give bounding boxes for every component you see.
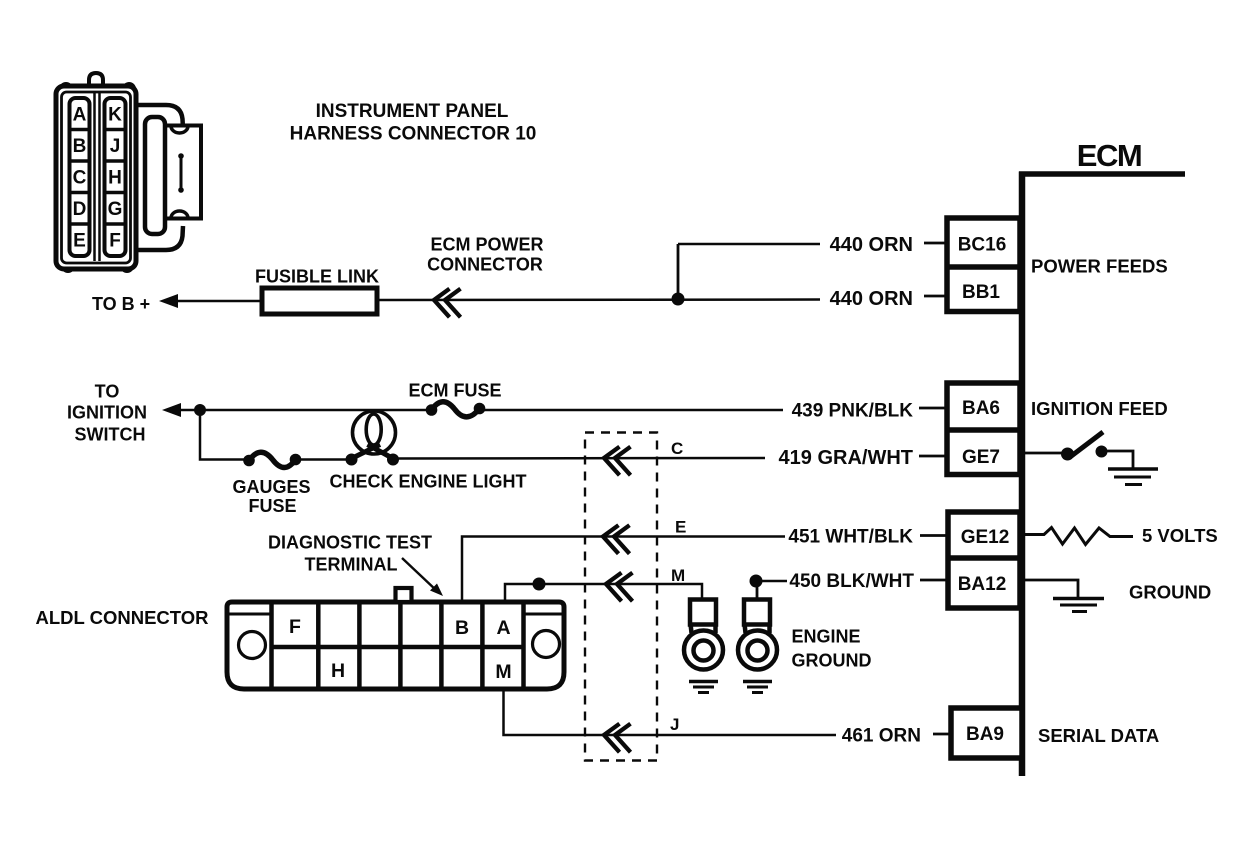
ALDL left divider [269, 602, 274, 689]
ground symbol at BA12 [1053, 599, 1104, 612]
wire stub to BA9 [933, 733, 951, 736]
svg-text:K: K [108, 105, 122, 126]
connector pin M chevrons [606, 573, 622, 602]
latch notch bottom [171, 211, 188, 218]
svg-text:BA12: BA12 [958, 574, 1007, 595]
svg-text:GAUGES: GAUGES [232, 477, 310, 497]
wire fusible link to connector [377, 298, 820, 301]
ground symbol ring 2 [743, 682, 772, 693]
fuse ECM FUSE [426, 404, 438, 416]
svg-text:BA9: BA9 [966, 724, 1004, 745]
wire stub to GE12 [920, 534, 948, 537]
svg-text:J: J [110, 136, 121, 157]
svg-text:M: M [671, 566, 685, 585]
svg-text:440 ORN: 440 ORN [830, 288, 913, 310]
connector J1 instrument panel harness connector 10 [56, 73, 201, 271]
switch ignition-to-ground [1020, 432, 1133, 468]
ALDL top tab [396, 588, 412, 602]
ALDL grid verticals [316, 603, 321, 688]
ALDL mounting hole right [533, 631, 560, 658]
svg-text:BB1: BB1 [962, 282, 1000, 303]
svg-text:GE12: GE12 [961, 527, 1010, 548]
fuse GAUGES FUSE [243, 455, 255, 467]
wire stub to BA12 [920, 579, 948, 582]
lamp check engine light [346, 454, 358, 466]
connector pin C chevrons [604, 447, 620, 476]
ground symbol ring 1 [689, 682, 718, 693]
arrow to B+ [159, 294, 178, 308]
wire gauges fuse to lamp [297, 458, 352, 461]
wire lamp to 419 GRA/WHT [393, 457, 765, 460]
connector ALDL body [227, 602, 564, 689]
svg-text:M: M [495, 661, 511, 683]
ring terminal 2 [738, 581, 777, 670]
mounting ear top-right [124, 84, 134, 94]
ring terminal 1 [684, 600, 723, 670]
svg-text:H: H [108, 168, 122, 189]
ground symbol at switch [1108, 469, 1158, 485]
connector ECM power connector chevrons [434, 289, 450, 318]
svg-text:450 BLK/WHT: 450 BLK/WHT [789, 571, 914, 592]
svg-text:419 GRA/WHT: 419 GRA/WHT [779, 447, 913, 469]
svg-text:C: C [73, 168, 87, 189]
svg-text:FUSIBLE LINK: FUSIBLE LINK [255, 267, 379, 287]
svg-text:BA6: BA6 [962, 398, 1000, 419]
terminal block BA9 [951, 708, 1022, 758]
junction dot ignition branch [194, 404, 206, 416]
connector bulkhead dashed outline [585, 433, 657, 761]
svg-text:SWITCH: SWITCH [75, 425, 146, 445]
svg-text:POWER FEEDS: POWER FEEDS [1031, 256, 1168, 277]
ALDL right ear line [523, 613, 562, 616]
terminal block BC16/BB1 [947, 218, 1020, 312]
wire stub to BC16 [924, 242, 948, 245]
svg-text:439 PNK/BLK: 439 PNK/BLK [792, 401, 914, 422]
ECM top edge [1019, 171, 1185, 177]
pin strip A-E [70, 98, 90, 256]
terminal block BA6/GE7 [947, 383, 1020, 475]
center rib [93, 93, 96, 261]
switch throw dot [1096, 446, 1108, 458]
svg-text:ALDL CONNECTOR: ALDL CONNECTOR [35, 607, 208, 628]
svg-text:GE7: GE7 [962, 447, 1000, 468]
svg-text:DIAGNOSTIC TEST: DIAGNOSTIC TEST [268, 533, 432, 553]
mounting ear bottom-left [63, 261, 73, 271]
ALDL mid row line [272, 645, 524, 650]
svg-text:H: H [331, 660, 345, 682]
wire BA12 to ground [1020, 580, 1078, 597]
svg-text:A: A [73, 105, 87, 126]
svg-text:TO B +: TO B + [92, 294, 150, 314]
svg-text:F: F [289, 616, 301, 638]
wire branch to 440 ORN upper [678, 243, 820, 246]
svg-text:HARNESS CONNECTOR 10: HARNESS CONNECTOR 10 [290, 124, 537, 145]
junction dot engine ground 2 [750, 575, 763, 588]
switch lever [1070, 432, 1103, 457]
svg-text:A: A [496, 617, 510, 639]
ALDL left ear line [229, 613, 271, 616]
svg-text:461 ORN: 461 ORN [842, 726, 921, 747]
svg-text:440 ORN: 440 ORN [830, 234, 913, 256]
arrow to ignition switch [162, 403, 181, 417]
svg-text:5 VOLTS: 5 VOLTS [1142, 525, 1218, 546]
wire stub to GE7 [919, 455, 948, 458]
latch tick [180, 156, 183, 190]
svg-text:TERMINAL: TERMINAL [305, 555, 398, 575]
ALDL mounting hole left [239, 632, 266, 659]
wire ignition feed [177, 409, 434, 412]
junction dot B+ split [672, 293, 685, 306]
pin strip K-F [105, 98, 126, 256]
fusible link F1 [262, 288, 377, 314]
wire pin B riser to 451 [462, 537, 785, 604]
junction dot pin A wire [533, 578, 546, 591]
inner body line [62, 92, 131, 263]
svg-text:GROUND: GROUND [792, 651, 872, 671]
svg-text:E: E [73, 231, 86, 252]
svg-text:E: E [675, 518, 686, 537]
svg-text:G: G [108, 199, 123, 220]
svg-text:CONNECTOR: CONNECTOR [427, 255, 543, 275]
ALDL right divider [521, 602, 526, 689]
wire pin M riser to 461 [504, 689, 837, 735]
arrow diagnostic test terminal pointer [402, 558, 437, 591]
terminal block GE12/BA12 [948, 512, 1020, 608]
svg-text:C: C [671, 439, 683, 458]
wire stub to BA6 [919, 407, 948, 410]
wire branch down from ignition junction [200, 410, 251, 460]
svg-text:FUSE: FUSE [248, 496, 296, 516]
svg-text:ENGINE: ENGINE [792, 627, 861, 647]
latch notch top [171, 126, 188, 133]
top polarizing bump [89, 73, 103, 87]
mounting ear bottom-right [122, 261, 132, 271]
svg-text:J: J [670, 715, 679, 734]
connector shell bottom arm [136, 226, 183, 250]
svg-text:GROUND: GROUND [1129, 582, 1211, 603]
svg-text:TO: TO [95, 382, 120, 402]
wire GE7 to switch [1020, 452, 1062, 455]
inner key bar [145, 117, 165, 234]
svg-text:F: F [109, 231, 121, 252]
resistor 5 volts pull-up [1020, 528, 1133, 545]
connector body outline [56, 86, 136, 269]
wire dot to 450 BLK/WHT [756, 580, 787, 583]
svg-text:CHECK ENGINE LIGHT: CHECK ENGINE LIGHT [329, 472, 526, 492]
connector shell top arm [136, 105, 183, 129]
svg-text:BC16: BC16 [958, 235, 1007, 256]
svg-text:INSTRUMENT PANEL: INSTRUMENT PANEL [316, 101, 509, 122]
svg-text:B: B [455, 617, 469, 639]
wire arrow to fusible link [174, 300, 263, 303]
wire stub to BB1 [924, 295, 948, 298]
wire fuse to 439 PNK/BLK [481, 409, 783, 412]
svg-text:IGNITION: IGNITION [67, 403, 147, 423]
svg-text:D: D [73, 199, 87, 220]
svg-text:IGNITION FEED: IGNITION FEED [1031, 398, 1168, 419]
connector pin J chevrons [604, 724, 620, 753]
connector pin E chevrons [603, 525, 619, 554]
svg-text:ECM POWER: ECM POWER [430, 235, 543, 255]
svg-text:B: B [73, 136, 87, 157]
ECM left edge [1019, 172, 1026, 777]
svg-text:SERIAL DATA: SERIAL DATA [1038, 725, 1159, 746]
wire pin A riser to chevron M and engine ground [505, 584, 702, 603]
mounting ear top-left [61, 84, 71, 94]
wire branch up [677, 244, 680, 299]
svg-text:ECM FUSE: ECM FUSE [408, 381, 501, 401]
svg-text:451 WHT/BLK: 451 WHT/BLK [788, 527, 913, 548]
svg-text:ECM: ECM [1077, 138, 1141, 173]
connector latch clip plate [164, 126, 201, 219]
wire switch to ground [1107, 451, 1133, 468]
switch pole dot [1061, 448, 1074, 461]
